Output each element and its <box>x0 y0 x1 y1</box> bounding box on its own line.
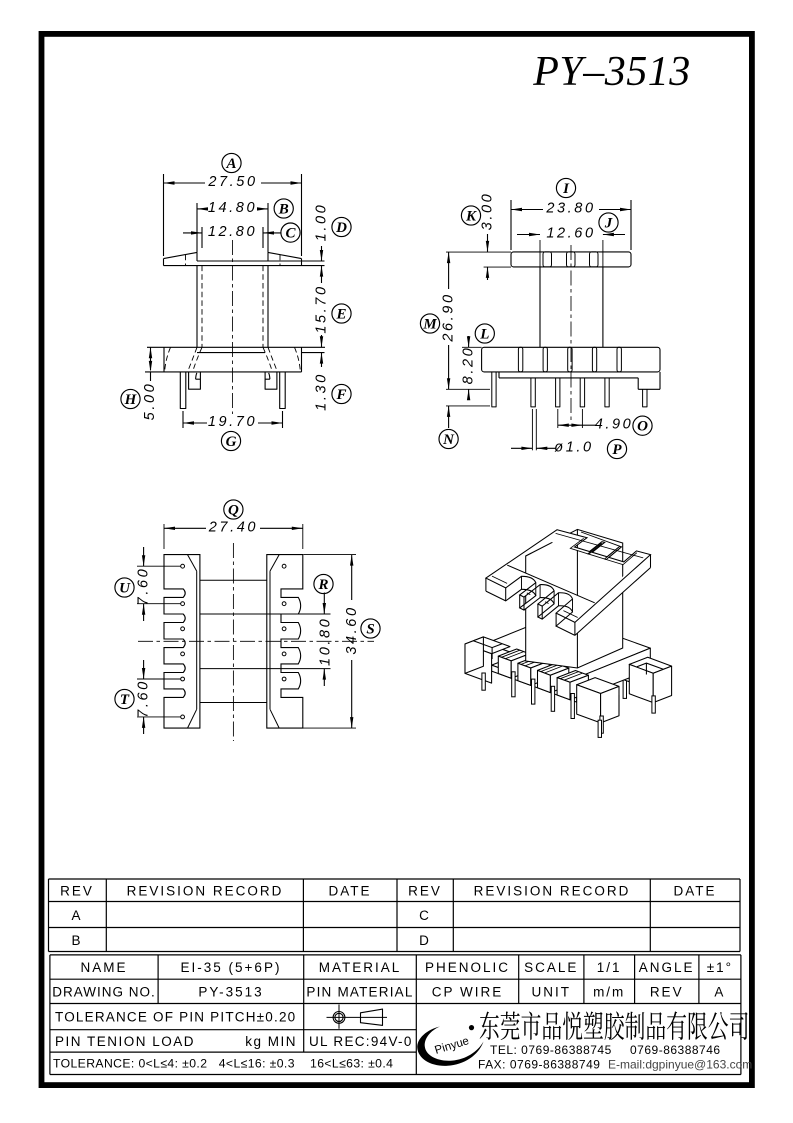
left pin (front view) <box>180 372 186 409</box>
svg-text:34.60: 34.60 <box>344 605 360 654</box>
svg-text:D: D <box>419 933 431 948</box>
svg-text:7.60: 7.60 <box>136 679 152 718</box>
dimension U 7.60 <box>137 565 181 567</box>
svg-text:MATERIAL: MATERIAL <box>319 960 402 975</box>
svg-text:E: E <box>335 306 346 322</box>
first angle projection symbol <box>333 1012 345 1024</box>
near comb deck <box>492 658 595 696</box>
svg-text:5.00: 5.00 <box>142 382 158 421</box>
side view bottom flange <box>482 347 660 372</box>
flange outline strokes <box>486 530 651 623</box>
svg-text:ø1.0: ø1.0 <box>554 440 593 456</box>
side tube walls <box>539 267 541 347</box>
dimension B 14.80 <box>196 203 198 252</box>
bottom flange (front view) <box>147 346 325 348</box>
svg-text:23.80: 23.80 <box>545 201 595 217</box>
dimension M 26.90 <box>448 252 450 289</box>
side view top flange <box>511 252 631 267</box>
svg-text:K: K <box>465 208 477 224</box>
svg-text:PY-3513: PY-3513 <box>198 984 263 999</box>
svg-text:15.70: 15.70 <box>314 284 330 333</box>
svg-text:27.50: 27.50 <box>207 174 257 190</box>
svg-text:M: M <box>422 316 437 332</box>
svg-text:O: O <box>637 419 648 435</box>
bottom view center lines <box>232 543 234 741</box>
revision table <box>49 878 741 880</box>
svg-text:A: A <box>71 908 82 923</box>
svg-text:TOLERANCE: 0<L≤4: ±0.2 4<L≤1: TOLERANCE: 0<L≤4: ±0.2 4<L≤16: ±0.3 16<L… <box>53 1057 393 1071</box>
svg-text:DRAWING NO.: DRAWING NO. <box>52 984 156 999</box>
left pin bracket <box>189 372 201 389</box>
svg-text:N: N <box>442 432 455 448</box>
svg-text:EI-35 (5+6P): EI-35 (5+6P) <box>181 960 282 975</box>
dimension G 19.70 <box>182 411 184 428</box>
center line <box>232 240 234 414</box>
core edges between plates <box>200 579 267 581</box>
svg-text:C: C <box>285 225 296 241</box>
svg-text:REV: REV <box>650 984 684 999</box>
flange ring fill over core <box>486 530 651 623</box>
dimension A 27.50 <box>163 174 165 256</box>
svg-text:14.80: 14.80 <box>208 200 257 216</box>
dimension I 23.80 <box>510 200 512 250</box>
dimension T 7.60 <box>137 678 181 680</box>
svg-text:PIN TENION LOAD: PIN TENION LOAD <box>55 1034 195 1049</box>
svg-text:B: B <box>71 933 82 948</box>
right pin bracket <box>265 372 277 389</box>
svg-text:0769-86388746: 0769-86388746 <box>630 1043 721 1057</box>
svg-text:G: G <box>226 434 237 450</box>
dimension E 15.70 <box>321 266 323 283</box>
Pinyue logo swoosh <box>417 1027 483 1066</box>
company name (Chinese) <box>480 1012 499 1040</box>
left block pin <box>482 673 485 690</box>
svg-text:REV: REV <box>408 884 442 899</box>
svg-text:REVISION RECORD: REVISION RECORD <box>474 884 631 899</box>
dimension L 8.20 <box>462 346 482 348</box>
bottom view right pin plate <box>267 555 303 729</box>
svg-text:U: U <box>119 580 131 596</box>
svg-text:7.60: 7.60 <box>136 567 152 606</box>
svg-text:TOLERANCE OF PIN PITCH±0.20: TOLERANCE OF PIN PITCH±0.20 <box>55 1010 296 1025</box>
flange apron faces <box>486 555 651 636</box>
svg-text:kg MIN: kg MIN <box>245 1034 297 1049</box>
right block pin <box>652 696 655 713</box>
svg-text:REV: REV <box>60 884 94 899</box>
svg-text:R: R <box>317 577 328 593</box>
svg-text:19.70: 19.70 <box>208 414 257 430</box>
front view of bobbin <box>163 259 165 266</box>
svg-text:PY–3513: PY–3513 <box>532 49 691 95</box>
winding tube walls <box>196 266 198 348</box>
svg-text:PIN MATERIAL: PIN MATERIAL <box>306 984 413 999</box>
svg-text:12.80: 12.80 <box>208 224 257 240</box>
svg-text:27.40: 27.40 <box>208 520 258 536</box>
svg-text:I: I <box>562 181 570 197</box>
svg-text:H: H <box>124 392 138 408</box>
bottom flange plate <box>486 615 650 677</box>
svg-text:T: T <box>120 692 130 708</box>
left corner block <box>465 637 510 654</box>
svg-text:A: A <box>225 156 236 172</box>
svg-text:A: A <box>714 984 725 999</box>
svg-text:1/1: 1/1 <box>597 960 622 975</box>
svg-text:UNIT: UNIT <box>532 984 572 999</box>
svg-text:TEL: 0769-86388745: TEL: 0769-86388745 <box>490 1043 612 1057</box>
svg-text:ANGLE: ANGLE <box>639 960 695 975</box>
dimension Q 27.40 <box>163 524 165 549</box>
svg-text:UL REC:94V-0: UL REC:94V-0 <box>309 1034 413 1049</box>
svg-text:1.30: 1.30 <box>314 372 330 411</box>
dimension C 12.80 <box>201 227 203 248</box>
dimension S 34.60 <box>304 554 357 556</box>
svg-text:±1°: ±1° <box>707 960 733 975</box>
dimension D 1.00 <box>321 246 323 261</box>
svg-text:8.20: 8.20 <box>461 346 477 385</box>
front block pins <box>600 716 603 733</box>
dimension F 1.30 <box>321 353 323 367</box>
title block <box>50 954 741 956</box>
svg-text:DATE: DATE <box>328 884 371 899</box>
svg-text:REVISION RECORD: REVISION RECORD <box>127 884 284 899</box>
svg-text:P: P <box>612 442 622 458</box>
svg-text:DATE: DATE <box>673 884 716 899</box>
far comb pins <box>603 666 606 691</box>
front corner block <box>577 678 619 694</box>
svg-text:1.00: 1.00 <box>314 203 330 242</box>
pin header deck <box>498 372 500 378</box>
svg-text:SCALE: SCALE <box>524 960 578 975</box>
svg-text:PHENOLIC: PHENOLIC <box>425 960 510 975</box>
dimension H 5.00 <box>150 347 152 370</box>
right corner block <box>629 657 671 673</box>
svg-text:S: S <box>366 621 374 637</box>
dimension P pin dia 1.0 <box>531 409 533 450</box>
svg-text:D: D <box>335 220 347 236</box>
svg-text:E-mail:dgpinyue@163.com: E-mail:dgpinyue@163.com <box>608 1058 752 1072</box>
side view pins <box>492 372 496 407</box>
hidden edges in flange ears <box>185 255 187 266</box>
dimension O 4.90 <box>557 409 559 428</box>
svg-text:CP WIRE: CP WIRE <box>432 984 504 999</box>
svg-text:3.00: 3.00 <box>480 192 496 231</box>
svg-text:F: F <box>335 387 346 403</box>
bottom view left pin plate <box>164 555 200 729</box>
svg-text:B: B <box>278 201 289 217</box>
core tube collar <box>526 529 623 668</box>
extension lines through flange <box>539 240 541 268</box>
svg-text:NAME: NAME <box>80 960 127 975</box>
svg-text:12.60: 12.60 <box>546 226 595 242</box>
side center line <box>570 245 572 420</box>
svg-text:Q: Q <box>228 502 239 518</box>
dimension J 12.60 <box>517 234 540 236</box>
svg-text:J: J <box>604 215 613 231</box>
svg-text:10.80: 10.80 <box>317 617 333 666</box>
far comb deck and bosses <box>587 653 648 676</box>
dimension K 3.00 <box>446 251 511 253</box>
dimension N <box>448 406 450 428</box>
svg-text:C: C <box>419 908 431 923</box>
svg-text:4.90: 4.90 <box>595 416 634 432</box>
svg-text:26.90: 26.90 <box>441 292 457 342</box>
svg-text:L: L <box>479 326 489 342</box>
near comb pin bosses <box>498 649 529 661</box>
right pin (front view) <box>280 372 286 409</box>
svg-text:m/m: m/m <box>593 984 625 999</box>
svg-text:FAX: 0769-86388749: FAX: 0769-86388749 <box>478 1058 600 1072</box>
dimension R 10.80 <box>323 593 325 615</box>
